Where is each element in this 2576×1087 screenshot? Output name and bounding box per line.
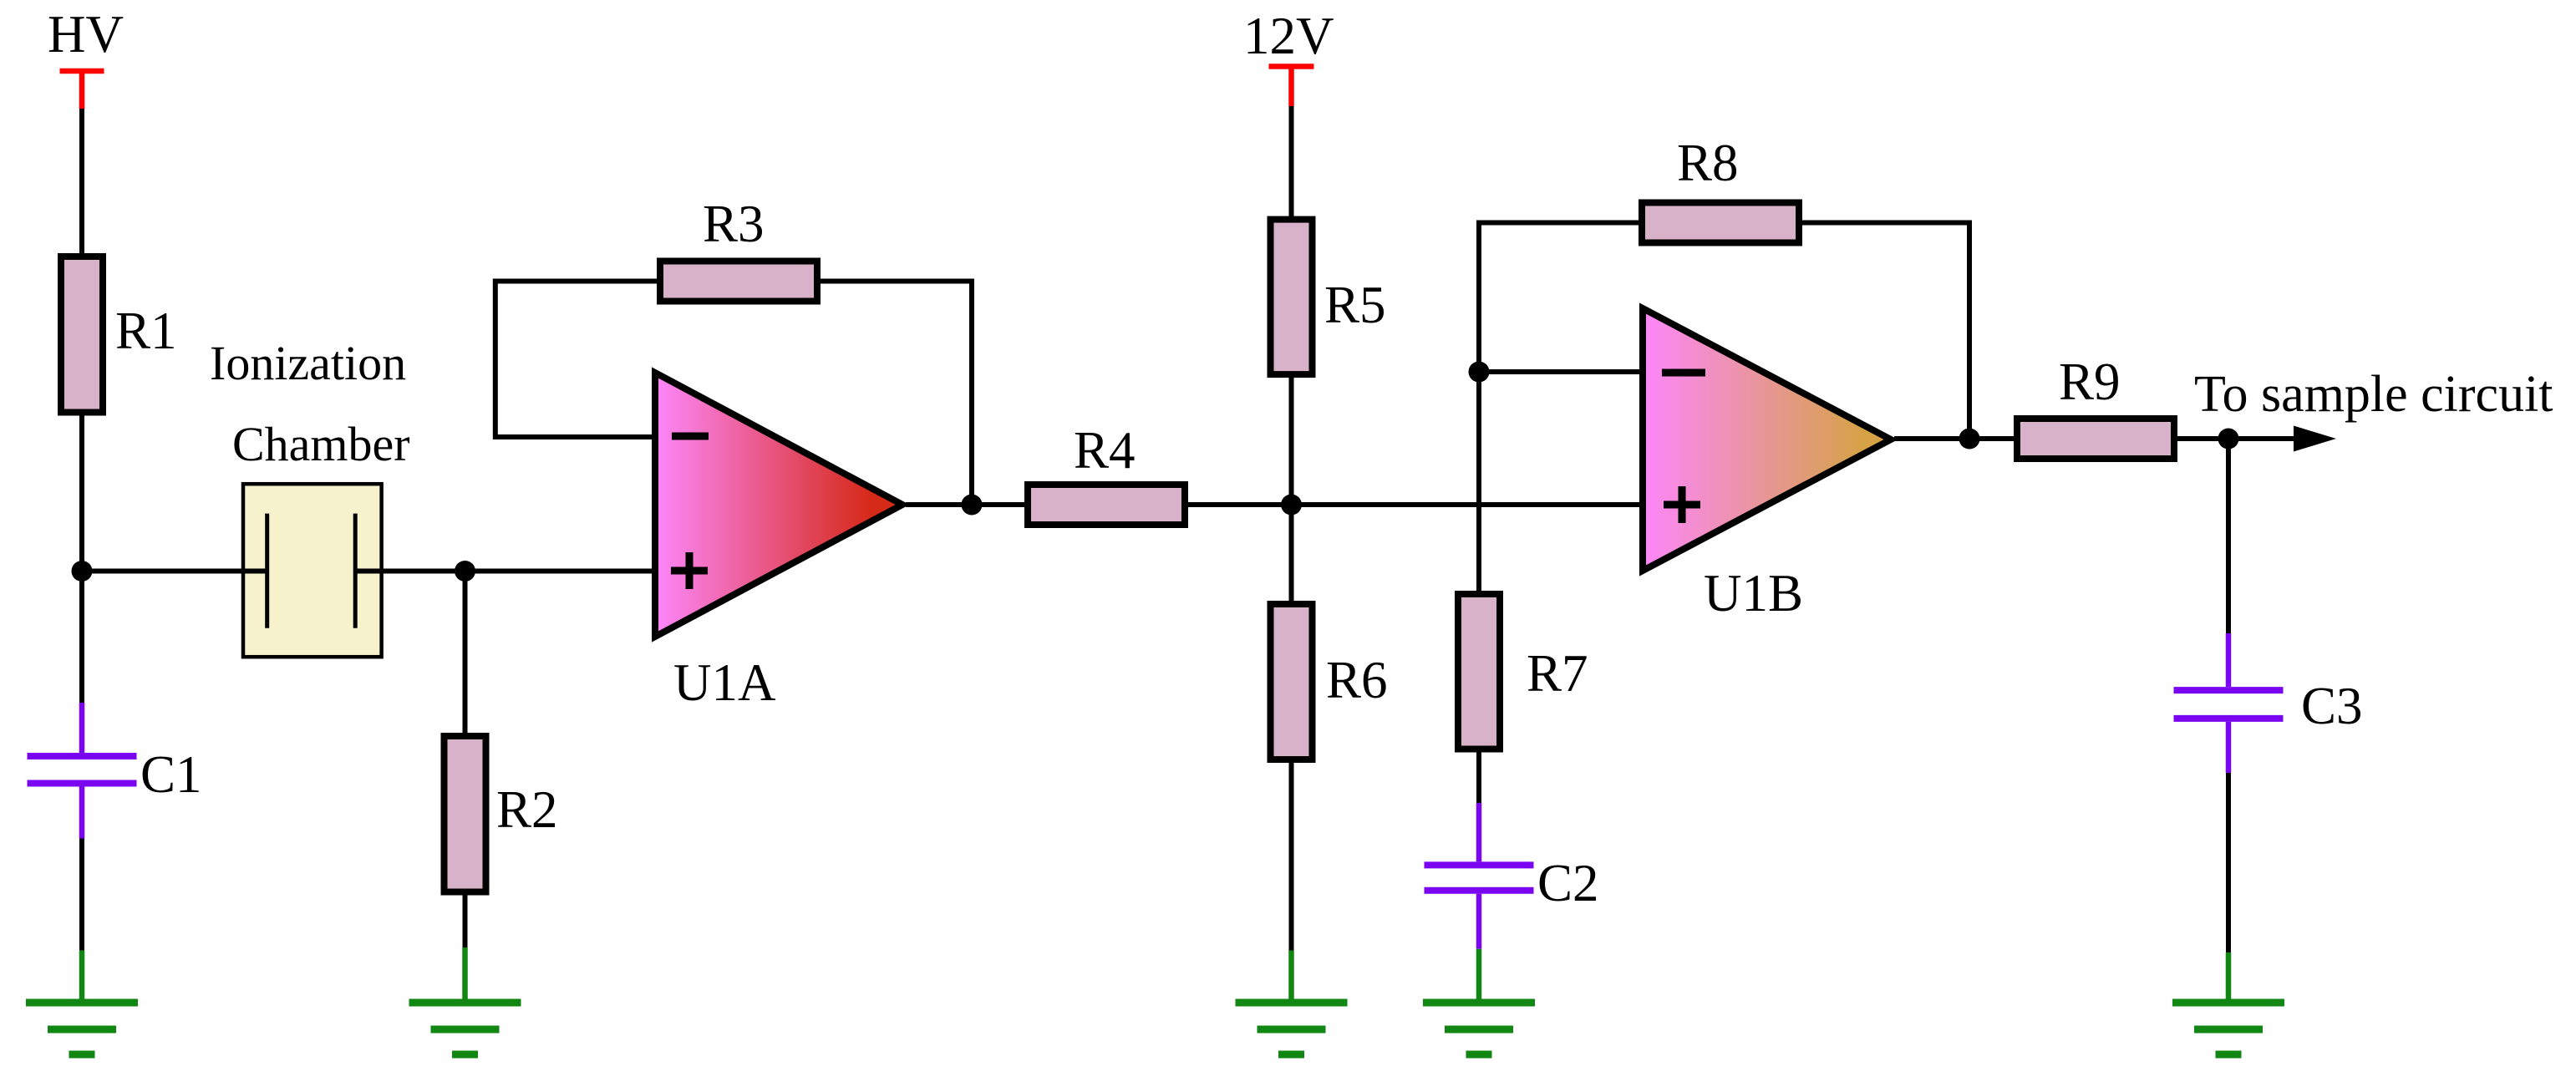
wire R3 to output node (821, 282, 972, 505)
node G (output / C3 branch) (2218, 429, 2239, 450)
svg-text:U1A: U1A (673, 653, 776, 712)
wire R1 to node A (79, 416, 84, 571)
wire R4 to U1B plus input (main rail) (1188, 502, 1643, 507)
capacitor C3 (2174, 633, 2284, 773)
svg-text:To sample circuit: To sample circuit (2194, 366, 2553, 423)
wire node E to U1B minus input (1479, 369, 1643, 374)
wire R6 to ground (1289, 763, 1294, 951)
wire C1 to ground (79, 839, 84, 951)
ionization chamber (243, 484, 382, 657)
svg-text:HV: HV (48, 5, 124, 63)
svg-text:C1: C1 (140, 745, 202, 804)
wire C3 to ground (2226, 773, 2231, 952)
node E (U1B minus branch) (1469, 362, 1490, 383)
svg-text:C2: C2 (1537, 854, 1599, 912)
capacitor C2 (1425, 803, 1534, 949)
capacitor C1 (28, 703, 137, 839)
wire node G down to C3 (2226, 439, 2231, 633)
resistor R5 (1271, 220, 1313, 375)
resistor R4 (1028, 485, 1185, 525)
wire R9 to output node G (2177, 436, 2298, 441)
svg-text:C3: C3 (2301, 677, 2363, 735)
wire node E up and right to R8 (1479, 223, 1639, 373)
resistor R8 (1642, 203, 1799, 243)
power 12V symbol (1269, 67, 1314, 107)
wire HV to R1 (79, 109, 84, 255)
wire chamber to U1A plus input (355, 569, 655, 574)
wire U1B output to R9 (1894, 436, 2017, 441)
ground (below C3) (2172, 952, 2284, 1054)
svg-text:Ionization: Ionization (210, 336, 406, 390)
node A (left junction) (72, 561, 93, 582)
node D (center rail junction) (1281, 495, 1302, 516)
ground (below R2) (409, 947, 521, 1054)
wire R8 to U1B output node (1802, 223, 1969, 439)
svg-text:R6: R6 (1326, 651, 1388, 709)
ground (below C2) (1423, 949, 1535, 1054)
node F (U1B output) (1959, 429, 1980, 450)
svg-text:R7: R7 (1527, 644, 1588, 703)
wire node B down to R2 (463, 571, 468, 735)
svg-text:R8: R8 (1677, 134, 1739, 192)
op-amp U1A (655, 373, 902, 637)
svg-text:U1B: U1B (1704, 564, 1803, 622)
wire node A down to C1 (79, 571, 84, 704)
wire R5 to node D (1289, 378, 1294, 505)
wire node A to ionization chamber (82, 569, 267, 574)
resistor R6 (1271, 604, 1313, 759)
wire U1B feedback branch (node E down through rail to R7) (1476, 372, 1481, 592)
svg-text:R9: R9 (2059, 353, 2121, 411)
svg-text:R4: R4 (1074, 421, 1136, 480)
resistor R7 (1458, 594, 1500, 749)
svg-text:R3: R3 (703, 195, 765, 253)
ground (below R6) (1236, 951, 1348, 1055)
ground (below C1) (26, 951, 138, 1054)
output arrow (2294, 426, 2336, 452)
wire 12V to R5 (1289, 106, 1294, 218)
node B (R2 branch) (455, 561, 475, 582)
svg-text:R1: R1 (115, 302, 177, 360)
wire R7 to C2 (1476, 749, 1481, 804)
wire R2 to ground (463, 895, 468, 947)
resistor R9 (2017, 419, 2174, 459)
wire U1A output to R4 (906, 502, 1028, 507)
wire U1A feedback loop (minus input to R3) (495, 282, 657, 438)
resistor R2 (445, 736, 486, 892)
wire node D to R6 (1289, 505, 1294, 602)
power HV symbol (60, 71, 104, 109)
op-amp U1B (1643, 308, 1891, 571)
svg-text:R2: R2 (496, 780, 558, 839)
svg-text:R5: R5 (1324, 276, 1386, 334)
resistor R3 (660, 262, 817, 302)
node C (U1A output) (962, 495, 983, 516)
svg-text:Chamber: Chamber (232, 417, 410, 471)
svg-text:12V: 12V (1243, 7, 1334, 65)
resistor R1 (61, 257, 103, 413)
